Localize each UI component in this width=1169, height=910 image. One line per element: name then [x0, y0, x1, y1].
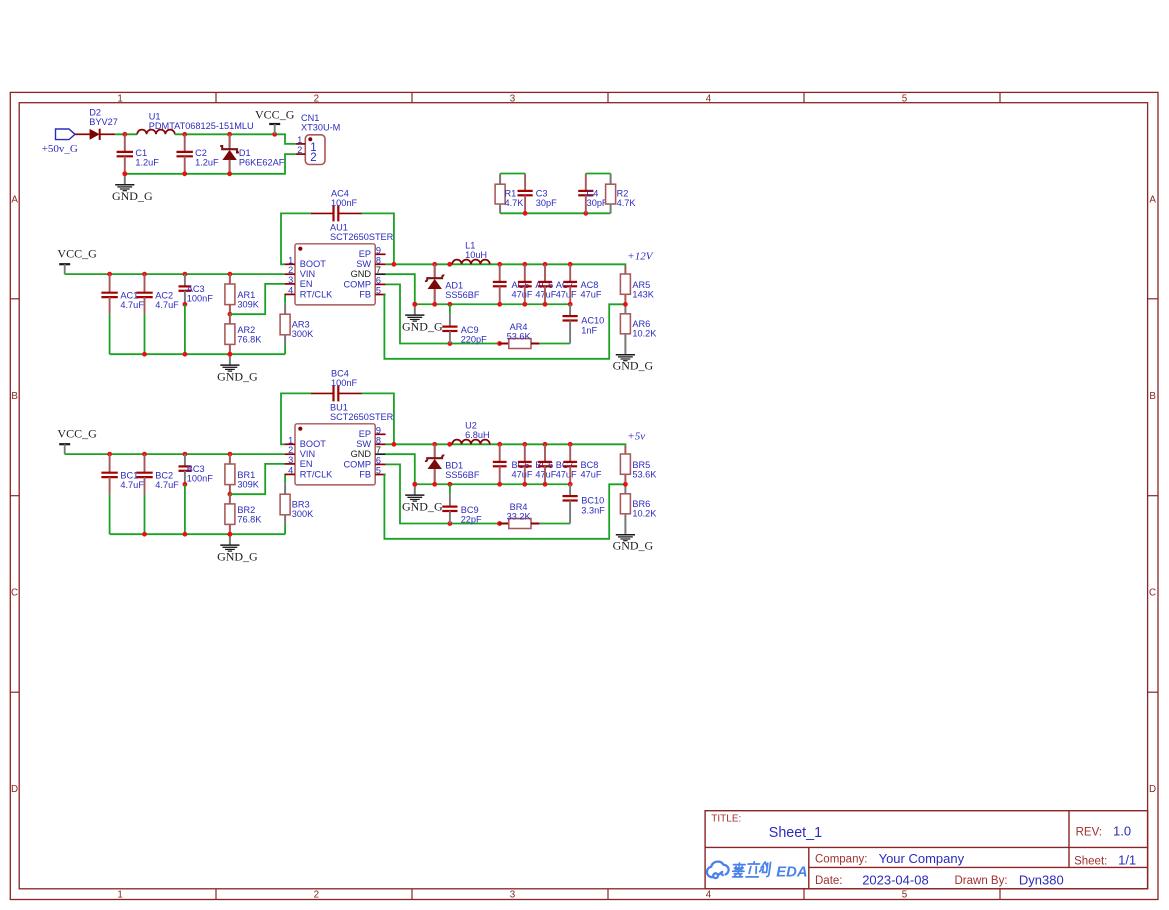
svg-text:3: 3: [510, 890, 516, 901]
svg-text:D: D: [1149, 784, 1156, 795]
svg-text:BC10: BC10: [581, 496, 604, 506]
svg-text:GND_G: GND_G: [402, 320, 443, 334]
svg-text:AC8: AC8: [581, 280, 599, 290]
svg-text:C3: C3: [536, 189, 548, 199]
svg-text:BC2: BC2: [155, 470, 173, 480]
svg-text:1nF: 1nF: [581, 325, 597, 335]
svg-text:4.7uF: 4.7uF: [155, 480, 179, 490]
svg-text:GND_G: GND_G: [112, 189, 153, 203]
svg-text:5: 5: [902, 93, 908, 104]
wire BOOT loop AU1: [281, 213, 394, 264]
junction EN node BU1: [228, 492, 233, 497]
svg-text:BR5: BR5: [632, 460, 650, 470]
junction FB node BU1: [623, 482, 628, 487]
ground GND_G AU1 left: [217, 352, 258, 384]
resistor AR4: [500, 322, 571, 349]
svg-text:1: 1: [117, 93, 122, 104]
wire VCC rail BU1: [65, 452, 285, 457]
svg-text:VIN: VIN: [300, 269, 315, 279]
TVS diode D1: [220, 134, 285, 174]
svg-text:9: 9: [376, 245, 381, 255]
svg-text:REV:: REV:: [1076, 826, 1102, 838]
inductor L1: [452, 240, 490, 264]
wire BOOT loop BU1: [281, 393, 394, 444]
junction FB node AU1: [623, 302, 628, 307]
svg-text:P6KE62AF: P6KE62AF: [239, 158, 285, 168]
resistor BR1: [225, 454, 260, 494]
svg-text:4: 4: [706, 890, 712, 901]
svg-text:RT/CLK: RT/CLK: [300, 469, 333, 479]
ground GND_G input: [112, 171, 153, 203]
svg-text:30pF: 30pF: [587, 198, 608, 208]
svg-text:EDA: EDA: [776, 865, 807, 881]
net label +12V AU1: [627, 251, 653, 263]
svg-text:1: 1: [297, 135, 302, 145]
capacitor BC10: [563, 484, 606, 523]
svg-text:3: 3: [288, 275, 293, 285]
ground GND_G BU1 right: [613, 534, 654, 553]
svg-text:9: 9: [376, 425, 381, 435]
wire EN BU1: [230, 464, 285, 494]
svg-text:4: 4: [706, 93, 712, 104]
svg-text:53.6K: 53.6K: [507, 331, 532, 341]
svg-text:SW: SW: [356, 259, 371, 269]
svg-text:100nF: 100nF: [187, 474, 213, 484]
svg-text:Drawn By:: Drawn By:: [955, 875, 1008, 887]
svg-text:2023-04-08: 2023-04-08: [862, 872, 929, 887]
svg-text:U1: U1: [149, 112, 161, 122]
capacitor AC1: [101, 274, 144, 354]
svg-text:300K: 300K: [292, 509, 314, 519]
svg-text:BC4: BC4: [331, 369, 349, 379]
svg-text:47uF: 47uF: [556, 470, 577, 480]
svg-text:GND: GND: [351, 449, 372, 459]
svg-text:220pF: 220pF: [461, 335, 487, 345]
svg-text:1: 1: [288, 255, 293, 265]
svg-text:C2: C2: [195, 148, 207, 158]
svg-text:C: C: [1149, 587, 1156, 598]
svg-text:2: 2: [288, 445, 293, 455]
wire bottom rail AU1: [110, 352, 286, 357]
svg-text:47uF: 47uF: [535, 470, 556, 480]
svg-text:47uF: 47uF: [535, 290, 556, 300]
svg-text:GND_G: GND_G: [217, 550, 258, 564]
capacitor AC10: [563, 304, 605, 343]
svg-text:AR5: AR5: [632, 280, 650, 290]
svg-text:FB: FB: [359, 289, 371, 299]
svg-text:GND: GND: [351, 269, 372, 279]
resistor BR4: [500, 502, 571, 529]
svg-text:BR1: BR1: [237, 470, 255, 480]
capacitor C3: [518, 174, 558, 214]
svg-text:Date:: Date:: [815, 875, 843, 887]
svg-text:1.0: 1.0: [1113, 824, 1131, 839]
diode D2: [75, 107, 118, 140]
svg-text:SS56BF: SS56BF: [445, 290, 480, 300]
svg-text:+12V: +12V: [627, 251, 653, 263]
svg-text:GND_G: GND_G: [402, 500, 443, 514]
svg-text:5: 5: [376, 286, 381, 296]
svg-text:PDMTAT068125-151MLU: PDMTAT068125-151MLU: [149, 121, 254, 131]
wire input bottom: [122, 154, 296, 176]
svg-text:2: 2: [310, 152, 316, 164]
svg-text:RT/CLK: RT/CLK: [300, 289, 333, 299]
svg-text:47uF: 47uF: [581, 470, 602, 480]
svg-text:C: C: [11, 587, 18, 598]
title block: [705, 811, 1148, 889]
svg-text:BR3: BR3: [292, 500, 310, 510]
svg-text:4.7uF: 4.7uF: [120, 300, 144, 310]
wire bottom rail BU1: [110, 532, 286, 537]
svg-text:SCT2650STER: SCT2650STER: [330, 412, 394, 422]
resistor BR2: [225, 494, 262, 534]
svg-text:FB: FB: [359, 469, 371, 479]
svg-text:5: 5: [902, 890, 908, 901]
svg-text:309K: 309K: [237, 480, 259, 490]
svg-text:47uF: 47uF: [556, 290, 577, 300]
wire R1-C3 top: [500, 173, 525, 175]
svg-text:B: B: [11, 391, 18, 402]
svg-text:AR6: AR6: [632, 319, 650, 329]
svg-text:D2: D2: [89, 107, 101, 117]
svg-text:1: 1: [117, 890, 122, 901]
svg-text:4.7K: 4.7K: [617, 198, 637, 208]
resistor AR2: [225, 314, 262, 354]
svg-text:D1: D1: [239, 148, 251, 158]
svg-text:R1: R1: [505, 189, 517, 199]
capacitor AC5: [493, 264, 533, 304]
capacitor AC4: [311, 189, 362, 222]
svg-text:A: A: [1149, 194, 1156, 205]
svg-text:VCC_G: VCC_G: [57, 246, 97, 260]
wire output gnd rail AU1: [412, 302, 572, 307]
schottky diode AD1: [425, 264, 480, 304]
resistor R1: [495, 174, 524, 214]
svg-text:5: 5: [376, 466, 381, 476]
wire SW AU1: [386, 262, 626, 267]
wire IC GND pin AU1: [386, 274, 415, 304]
inductor U1: [137, 112, 253, 135]
svg-text:2: 2: [288, 265, 293, 275]
svg-text:BU1: BU1: [330, 403, 348, 413]
svg-text:300K: 300K: [292, 329, 314, 339]
power flag VCC_G AU1: [57, 246, 97, 274]
svg-text:EP: EP: [359, 429, 371, 439]
svg-text:10.2K: 10.2K: [632, 509, 657, 519]
svg-text:3: 3: [288, 455, 293, 465]
svg-text:D: D: [11, 784, 18, 795]
capacitor BC7: [538, 444, 577, 484]
svg-text:Your Company: Your Company: [879, 851, 965, 866]
svg-text:EN: EN: [300, 459, 313, 469]
svg-text:3: 3: [510, 93, 516, 104]
wire input top: [115, 132, 137, 137]
ground GND_G AU1 mid: [402, 302, 443, 334]
wire EN AU1: [230, 284, 285, 314]
capacitor C1: [117, 134, 160, 174]
svg-text:AC10: AC10: [581, 316, 604, 326]
svg-text:2: 2: [297, 145, 302, 155]
svg-text:47uF: 47uF: [512, 470, 533, 480]
svg-text:AU1: AU1: [330, 223, 348, 233]
svg-text:100nF: 100nF: [187, 294, 213, 304]
svg-text:4.7uF: 4.7uF: [120, 480, 144, 490]
svg-text:1: 1: [288, 435, 293, 445]
ground GND_G BU1 left: [217, 532, 258, 564]
svg-text:100nF: 100nF: [331, 378, 357, 388]
wire COMP AU1: [386, 284, 502, 346]
svg-text:AR3: AR3: [292, 320, 310, 330]
svg-text:SW: SW: [356, 439, 371, 449]
wire RT/CLK AU1: [284, 293, 287, 295]
resistor BR6: [620, 484, 657, 534]
EasyEDA logo: [707, 862, 808, 881]
svg-text:AC1: AC1: [120, 290, 138, 300]
svg-text:1.2uF: 1.2uF: [195, 158, 219, 168]
svg-text:L1: L1: [465, 240, 475, 250]
svg-text:B: B: [1149, 391, 1156, 402]
capacitor C2: [177, 134, 219, 174]
svg-text:8: 8: [376, 255, 381, 265]
svg-text:Sheet:: Sheet:: [1074, 855, 1107, 867]
ground GND_G BU1 mid: [402, 482, 443, 514]
capacitor BC5: [493, 444, 533, 484]
capacitor BC2: [136, 454, 179, 534]
svg-text:AC3: AC3: [187, 284, 205, 294]
svg-text:4: 4: [288, 465, 293, 475]
svg-text:BD1: BD1: [445, 460, 463, 470]
svg-text:U2: U2: [465, 420, 477, 430]
svg-text:33.2K: 33.2K: [507, 511, 532, 521]
svg-text:BOOT: BOOT: [300, 439, 326, 449]
svg-text:GND_G: GND_G: [613, 358, 654, 372]
svg-text:EP: EP: [359, 249, 371, 259]
capacitor BC6: [518, 444, 557, 484]
capacitor BC4: [311, 369, 362, 402]
svg-text:C1: C1: [135, 148, 147, 158]
svg-text:COMP: COMP: [343, 279, 371, 289]
svg-text:XT30U-M: XT30U-M: [301, 123, 340, 133]
svg-text:22pF: 22pF: [461, 515, 482, 525]
capacitor AC9: [442, 304, 487, 344]
op-amp AU1 SCT2650STER buck IC: [285, 223, 394, 305]
connector CN1: [296, 113, 340, 165]
svg-text:+50v_G: +50v_G: [42, 143, 78, 155]
wire RT/CLK BU1: [284, 473, 287, 475]
svg-text:BC1: BC1: [120, 470, 138, 480]
svg-text:EN: EN: [300, 279, 313, 289]
capacitor BC1: [101, 454, 144, 534]
wire VCC rail AU1: [65, 272, 285, 277]
svg-text:7: 7: [376, 265, 381, 275]
svg-text:6: 6: [376, 455, 381, 465]
resistor R2: [606, 174, 637, 214]
svg-text:100nF: 100nF: [331, 198, 357, 208]
junction EN node AU1: [228, 312, 233, 317]
capacitor AC3: [179, 274, 214, 354]
svg-text:A: A: [11, 194, 18, 205]
capacitor BC8: [563, 444, 602, 484]
op-amp BU1 SCT2650STER buck IC: [285, 403, 394, 485]
svg-text:AC2: AC2: [155, 290, 173, 300]
svg-text:BOOT: BOOT: [300, 259, 326, 269]
svg-text:143K: 143K: [632, 290, 654, 300]
svg-text:47uF: 47uF: [581, 290, 602, 300]
wire output gnd rail BU1: [412, 482, 572, 487]
svg-text:4.7uF: 4.7uF: [155, 300, 179, 310]
capacitor C4: [578, 174, 608, 214]
svg-text:AR1: AR1: [237, 290, 255, 300]
resistor AR1: [225, 274, 260, 314]
svg-text:+5v: +5v: [627, 431, 645, 443]
svg-text:COMP: COMP: [343, 459, 371, 469]
svg-text:VIN: VIN: [300, 449, 315, 459]
svg-text:47uF: 47uF: [512, 290, 533, 300]
capacitor AC2: [136, 274, 179, 354]
svg-text:76.8K: 76.8K: [237, 335, 262, 345]
svg-text:SS56BF: SS56BF: [445, 470, 480, 480]
svg-text:2: 2: [314, 890, 319, 901]
svg-text:AR2: AR2: [237, 325, 255, 335]
svg-text:BYV27: BYV27: [89, 117, 118, 127]
capacitor BC3: [179, 454, 214, 534]
svg-text:SCT2650STER: SCT2650STER: [330, 232, 394, 242]
resistor AR6: [620, 304, 657, 354]
inductor U2: [452, 420, 490, 444]
schottky diode BD1: [425, 444, 480, 484]
svg-text:76.8K: 76.8K: [237, 515, 262, 525]
wire U1 to CN1: [175, 132, 296, 144]
svg-text:53.6K: 53.6K: [632, 470, 657, 480]
svg-text:2: 2: [314, 93, 319, 104]
port +50v_G: [42, 129, 78, 155]
svg-text:10.2K: 10.2K: [632, 329, 657, 339]
capacitor BC9: [442, 484, 482, 524]
capacitor AC8: [563, 264, 602, 304]
wire COMP BU1: [386, 464, 502, 525]
svg-text:8: 8: [376, 435, 381, 445]
svg-text:Company:: Company:: [815, 854, 867, 866]
svg-text:Sheet_1: Sheet_1: [769, 825, 822, 841]
wire snubber bottom: [500, 211, 610, 216]
svg-text:C4: C4: [587, 189, 599, 199]
svg-text:CN1: CN1: [301, 113, 319, 123]
svg-text:TITLE:: TITLE:: [711, 814, 741, 825]
wire C4-R2 top: [586, 173, 611, 175]
svg-text:7: 7: [376, 445, 381, 455]
svg-text:4.7K: 4.7K: [505, 198, 525, 208]
resistor AR3: [280, 294, 314, 354]
svg-text:10uH: 10uH: [465, 250, 487, 260]
svg-text:BC8: BC8: [581, 460, 599, 470]
resistor AR5: [620, 266, 654, 304]
wire FB AU1: [384, 295, 625, 359]
svg-text:1.2uF: 1.2uF: [135, 158, 159, 168]
svg-text:4: 4: [288, 285, 293, 295]
svg-text:1/1: 1/1: [1118, 853, 1136, 868]
svg-text:GND_G: GND_G: [613, 538, 654, 552]
wire SW BU1: [386, 442, 626, 447]
wire IC GND pin BU1: [386, 454, 415, 484]
svg-text:6: 6: [376, 275, 381, 285]
svg-text:309K: 309K: [237, 300, 259, 310]
wire FB BU1: [384, 475, 625, 539]
svg-text:AC4: AC4: [331, 189, 349, 199]
svg-text:30pF: 30pF: [536, 198, 557, 208]
resistor BR3: [280, 474, 314, 534]
capacitor AC7: [538, 264, 577, 304]
power flag VCC_G BU1: [57, 426, 97, 454]
svg-text:AD1: AD1: [445, 280, 463, 290]
svg-text:3.3nF: 3.3nF: [581, 505, 605, 515]
net label +5v BU1: [627, 431, 645, 443]
svg-text:BC3: BC3: [187, 464, 205, 474]
capacitor AC6: [518, 264, 557, 304]
svg-text:R2: R2: [617, 189, 629, 199]
svg-text:AC9: AC9: [461, 325, 479, 335]
ground GND_G AU1 right: [613, 354, 654, 373]
svg-text:GND_G: GND_G: [217, 370, 258, 384]
svg-text:BC9: BC9: [461, 505, 479, 515]
power flag VCC_G top: [255, 108, 295, 135]
resistor BR5: [620, 446, 657, 484]
svg-text:BR6: BR6: [632, 499, 650, 509]
svg-text:BR2: BR2: [237, 505, 255, 515]
svg-text:VCC_G: VCC_G: [255, 108, 295, 122]
svg-text:6.8uH: 6.8uH: [465, 430, 490, 440]
svg-text:VCC_G: VCC_G: [57, 426, 97, 440]
svg-text:Dyn380: Dyn380: [1019, 872, 1064, 887]
